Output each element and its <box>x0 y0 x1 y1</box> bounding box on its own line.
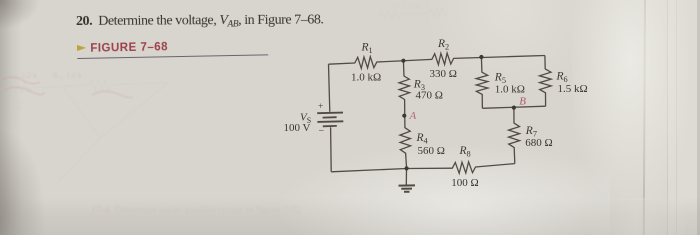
svg-text:100 V: 100 V <box>284 122 311 134</box>
svg-text:R8: R8 <box>459 145 471 159</box>
svg-text:−: − <box>319 126 325 137</box>
svg-text:R1: R1 <box>361 42 373 56</box>
svg-text:1.0 kΩ: 1.0 kΩ <box>351 72 381 84</box>
svg-text:330 Ω: 330 Ω <box>430 68 457 80</box>
svg-text:1.0 kΩ: 1.0 kΩ <box>495 84 525 96</box>
svg-text:+: + <box>318 102 323 112</box>
svg-text:100 Ω: 100 Ω <box>451 177 478 189</box>
svg-text:680 Ω: 680 Ω <box>525 137 552 149</box>
svg-text:B: B <box>519 96 526 108</box>
svg-text:560 Ω: 560 Ω <box>418 145 445 157</box>
svg-text:470 Ω: 470 Ω <box>416 90 443 102</box>
svg-text:A: A <box>409 110 417 122</box>
svg-text:1.5 kΩ: 1.5 kΩ <box>558 83 588 95</box>
svg-text:R4: R4 <box>416 132 429 146</box>
svg-text:R2: R2 <box>437 38 449 52</box>
